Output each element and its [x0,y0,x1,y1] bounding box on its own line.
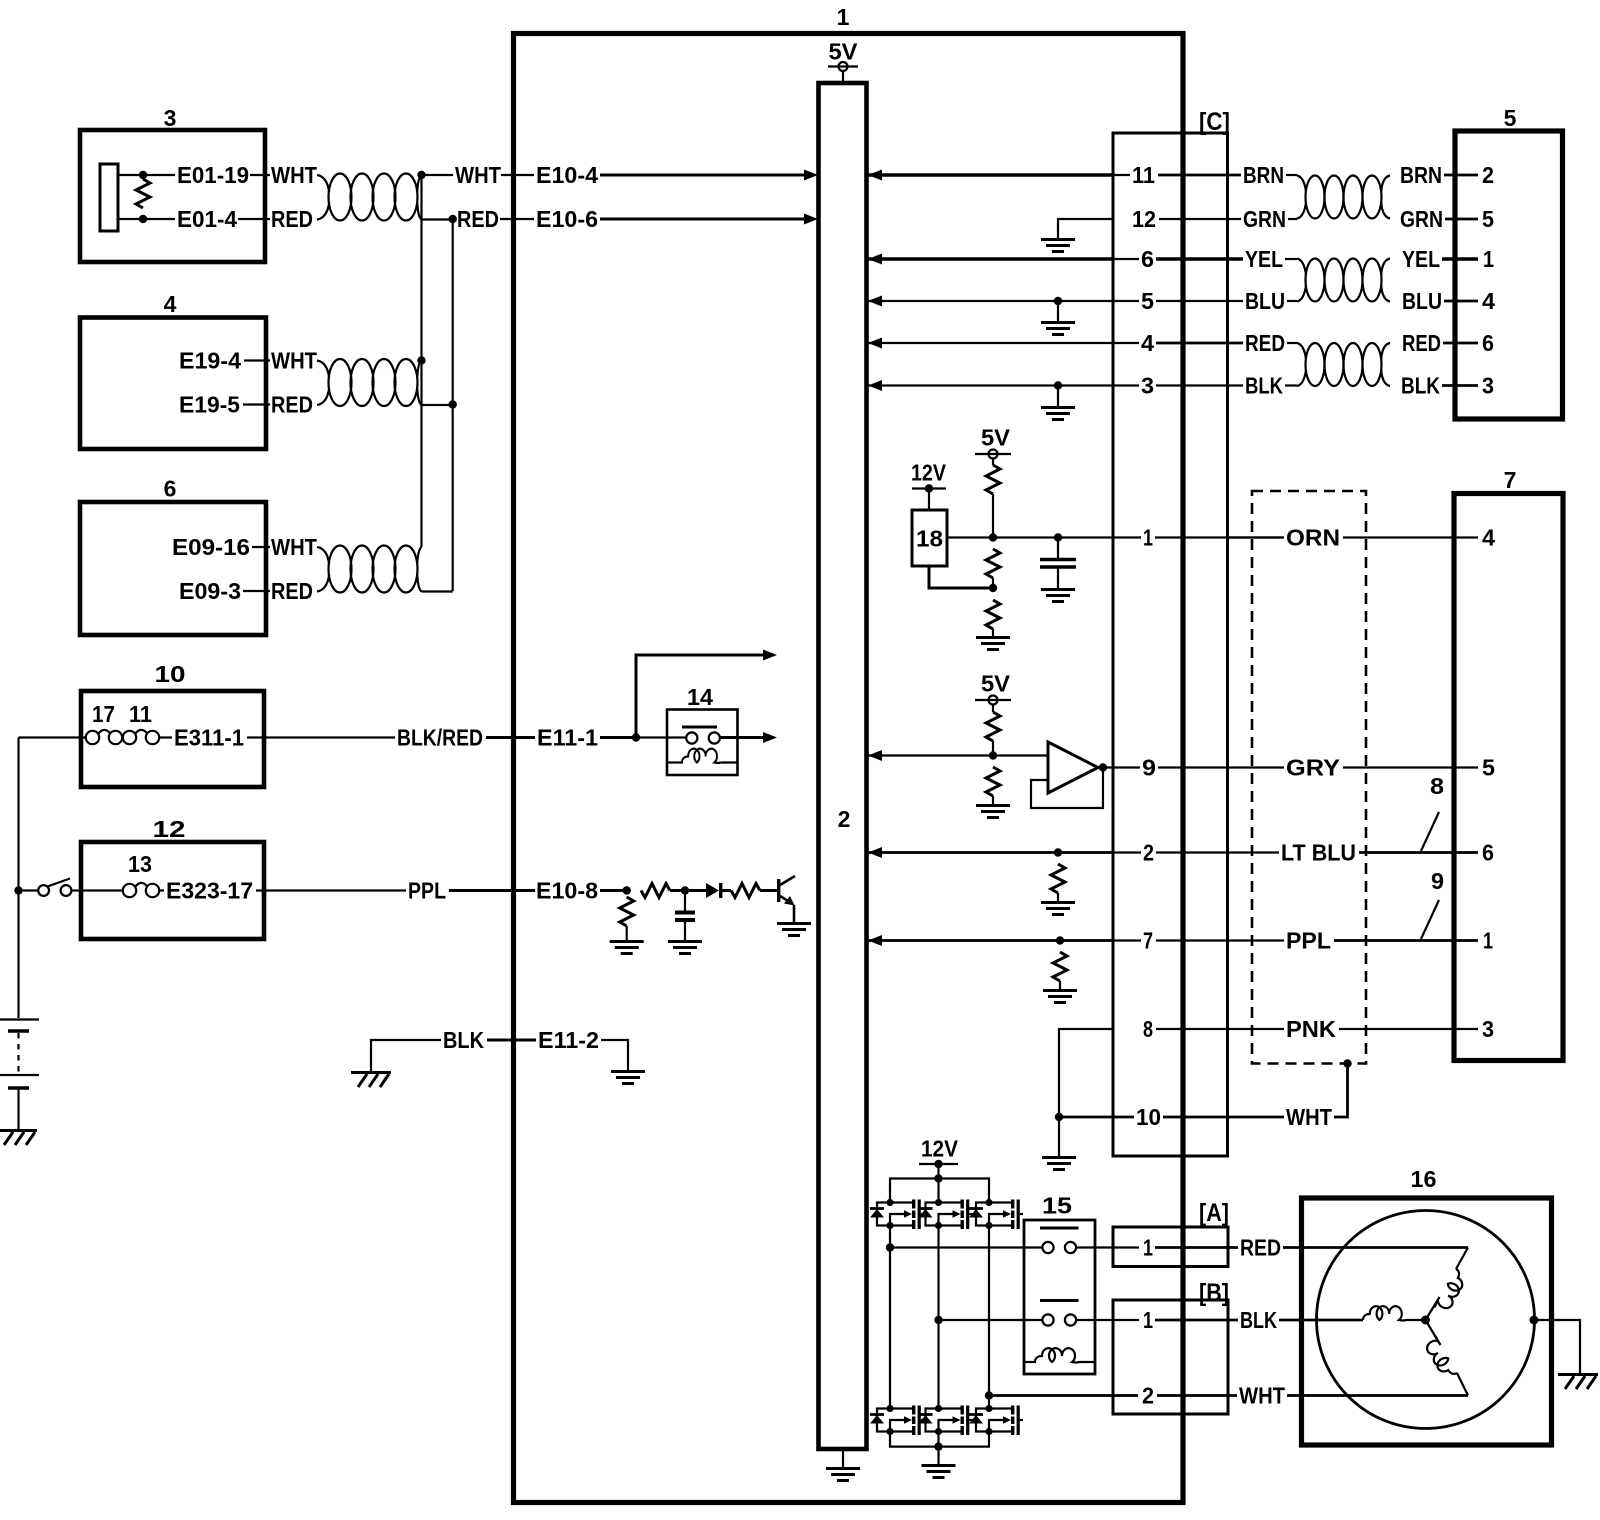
svg-text:YEL: YEL [1402,246,1440,272]
pin 7 stub [1113,939,1141,941]
wire ORN to pin 4 [1343,536,1478,538]
wire BLK/RED into box 1 [486,736,535,739]
svg-text:1: 1 [1143,525,1153,551]
svg-text:E01-19: E01-19 [177,162,249,188]
5V terminal (comparator) [975,696,1011,713]
wire E323-17 to PPL [256,889,406,891]
wire pin 12 jog to ground [1058,219,1113,238]
battery lower plates [0,1075,39,1088]
wire resistor to transistor base [760,889,777,892]
wire BRN to pin 2 [1444,174,1478,177]
svg-text:11: 11 [129,701,152,727]
svg-text:[C]: [C] [1199,108,1230,136]
sensor element (box 3) [100,164,118,231]
wire RED entry [1287,342,1297,344]
svg-text:2: 2 [838,806,851,832]
wire E01-19 stub [143,174,175,176]
splice slash 8 [1421,812,1439,851]
battery cell dashes [17,1033,19,1072]
node cap tap [1054,533,1062,541]
svg-text:GRY: GRY [1286,755,1340,781]
node source rail [934,1442,942,1450]
wire coil to RED bus [422,218,453,220]
winding phase C diagonal [1457,1373,1468,1396]
wire phase A vertical [889,1226,891,1407]
wire pin 7 to box 2 [868,939,1113,942]
wire bus down from box10 row [17,738,19,1019]
arrow into box 2 (pin 11) [868,170,882,181]
svg-text:WHT: WHT [271,534,317,560]
wire resistor to node [992,494,994,538]
winding phase B coil [1363,1306,1406,1320]
wire to ground [992,796,994,804]
connector box A [1113,1227,1228,1267]
wire contact to arrow [720,736,764,739]
svg-text:E19-4: E19-4 [179,348,241,374]
resistor (comparator pull-up) [986,712,1000,741]
pin 3 stub [1113,384,1139,386]
svg-text:4: 4 [164,291,177,317]
ground (pin 1 filter cap) [1041,590,1075,602]
pin 5 stub [1113,300,1139,302]
node divider mid [989,533,997,541]
relay 14 coil [682,749,721,763]
svg-text:RED: RED [1240,1235,1281,1261]
svg-text:4: 4 [1482,525,1495,551]
wire into box 10 [19,736,87,738]
svg-text:E19-5: E19-5 [179,392,240,418]
relay 14 contact bar [682,726,717,729]
wire BLK to pin 3 [1442,384,1478,387]
svg-text:16: 16 [1411,1166,1437,1192]
wire WHT bus vertical [420,175,422,547]
wire E10-6 to box 2 [600,218,806,221]
svg-text:BLU: BLU [1402,288,1442,314]
wire pin B1 to BLK [1155,1319,1238,1322]
arrow into box 2 (pin 5) [868,296,882,307]
wire branch up [636,655,764,738]
winding phase A coil [1434,1269,1468,1314]
svg-text:7: 7 [1504,467,1517,493]
wire node to cap node [993,536,1058,538]
chassis ground (motor case) [1558,1375,1598,1390]
wire pin 4 to box 2 [868,342,1113,344]
wire coil bottom to RED bus end [422,590,453,592]
wire E09-16 [252,546,270,548]
12V terminal [912,484,946,510]
svg-text:1: 1 [1143,1235,1153,1261]
resistor (series, E10-8) [641,884,670,898]
svg-text:12V: 12V [911,460,947,486]
svg-text:5V: 5V [981,671,1011,697]
wire 18 to node [947,536,993,538]
svg-text:3: 3 [164,105,177,131]
svg-text:YEL: YEL [1245,246,1283,272]
node phase B tap [934,1316,942,1324]
chassis ground (BLK lead) [351,1073,391,1088]
svg-text:9: 9 [1142,755,1156,781]
svg-text:ORN: ORN [1286,525,1340,551]
wire rail to ground [937,1447,939,1464]
node filter [681,886,689,894]
svg-text:5: 5 [1141,288,1154,314]
wire BLU entry [1287,300,1297,302]
wire fuse to E323-17 [159,889,164,891]
wire pin 10 to WHT [1163,1116,1284,1119]
wire E01-4 to RED [238,218,270,220]
svg-text:BLK: BLK [1240,1307,1277,1333]
svg-text:[B]: [B] [1199,1279,1229,1307]
wire LT BLU to pin 6 [1359,851,1478,854]
twisted pair BRN/GRN [1297,176,1390,219]
arrow into box 2 (pin 7) [868,935,882,946]
wire phase B to relay [939,1319,1043,1321]
wire pin B2 to WHT [1157,1394,1237,1397]
node E10-8 input [623,886,631,894]
wire BLK into box 1 [487,1039,536,1042]
svg-text:6: 6 [1141,246,1154,272]
arrow into box 2 (pin 2) [868,847,882,858]
svg-text:E311-1: E311-1 [174,725,244,751]
wire pin 3 to box 2 [868,384,1113,386]
svg-text:BLK/RED: BLK/RED [397,725,483,751]
svg-text:PPL: PPL [1286,928,1331,954]
wire contact A to box A [1076,1246,1139,1248]
ground (divider) [976,638,1010,650]
wire E19-5 [243,403,270,405]
svg-text:PNK: PNK [1286,1016,1336,1042]
relay 15 coil [1035,1348,1079,1362]
wire PPL to pin 1 [1334,939,1478,942]
wire to diode [685,889,706,892]
node motor case bond [1530,1316,1539,1325]
svg-text:E09-16: E09-16 [172,534,250,560]
winding phase B to center [1406,1319,1426,1321]
svg-text:E11-1: E11-1 [537,725,598,751]
transistor Q (NPN) [777,876,795,922]
svg-text:4: 4 [1141,330,1154,356]
ground (pin 5) [1041,323,1075,335]
svg-text:3: 3 [1482,1016,1494,1042]
5V terminal (divider) [975,450,1011,466]
resistor (comparator lower) [986,767,1000,796]
wire pin 5 to box 2 [868,300,1113,302]
node RED bus mid [449,400,457,408]
node pin 2 tap [1054,848,1062,856]
wire mid drain lead [937,1179,939,1201]
winding phase A to center [1426,1297,1440,1320]
node divider low [989,584,997,592]
node 12V rail [934,1174,942,1182]
pin 6 stub [1113,258,1139,260]
pin 2 stub [1113,851,1141,853]
svg-text:6: 6 [164,476,177,502]
module box 2 [819,83,867,1449]
node (143,219) [139,215,147,223]
svg-text:10: 10 [155,661,186,687]
svg-text:1: 1 [837,4,850,30]
node pin 10 [1055,1113,1063,1121]
ground below box 2 [842,1449,844,1467]
resistor (base, E10-8) [731,884,760,898]
svg-text:9: 9 [1431,868,1444,894]
svg-text:E01-4: E01-4 [177,206,237,232]
wire node to contact [636,736,686,738]
chassis ground (battery) [0,1131,37,1146]
wire pin 8 jog [1059,1029,1113,1117]
svg-text:6: 6 [1482,330,1494,356]
node E11-1 branch [632,733,640,741]
arrow into box 2 (E10-6) [804,214,818,225]
wire pin 3 to BLK [1156,384,1243,386]
motor circle [1317,1211,1535,1429]
svg-text:WHT: WHT [1286,1104,1332,1130]
relay box 15 [1024,1220,1095,1374]
pin 11 stub [1113,174,1130,176]
relay 15 contact B bar [1040,1299,1079,1302]
svg-text:E323-17: E323-17 [166,878,253,904]
svg-text:12V: 12V [921,1136,959,1162]
op-amp U (comparator) [1048,742,1098,793]
relay 14 coil baseline left [667,761,683,763]
wire WHT into motor [1287,1394,1468,1397]
wire pin 11 to BRN [1158,174,1241,177]
wire 18 bottom to low node [929,566,993,588]
wire pin 6 to YEL [1156,257,1243,260]
shield dashed box [1252,491,1366,1064]
wire to ground [1057,893,1059,901]
wire WHT into box 1 [501,174,534,176]
wire E311-1 to BLK/RED [247,736,395,738]
wire RED into motor [1283,1246,1468,1249]
svg-text:WHT: WHT [1239,1383,1285,1409]
svg-text:E11-2: E11-2 [538,1027,599,1053]
node pin 3 ground tap [1054,381,1062,389]
sensor box 3 [80,130,265,262]
svg-text:LT BLU: LT BLU [1281,840,1356,866]
wire BRN entry [1286,174,1297,176]
node phase A tap [886,1243,894,1251]
wire E11-2 to ground [601,1040,628,1070]
wire YEL to pin 1 [1442,257,1478,260]
connector box C [1113,133,1228,1156]
wire to lower node [992,578,994,588]
wire phase B vertical [937,1226,939,1407]
wire 12V rail [890,1179,989,1201]
arrow relay row to box 2 [763,732,777,743]
svg-text:WHT: WHT [455,162,501,188]
svg-text:12: 12 [1132,206,1156,232]
svg-text:10: 10 [1136,1104,1161,1130]
wire GRN to pin 5 [1445,218,1478,221]
svg-text:BLK: BLK [1245,373,1283,399]
svg-text:8: 8 [1143,1016,1153,1042]
wire sensor bottom [118,218,143,220]
feedback wire [1031,768,1103,809]
svg-text:7: 7 [1143,928,1153,954]
svg-text:4: 4 [1482,288,1495,314]
relay 15 coil leads [1024,1361,1036,1363]
wire BLK from chassis ground [371,1040,441,1071]
wire sensor top [118,174,143,176]
twisted pair RED/BLK [1297,343,1390,386]
wire RED bus vertical [452,219,454,591]
wire pin 10 [1059,1116,1134,1119]
resistor (divider mid) [986,549,1000,578]
ECU box 1 [514,34,1184,1503]
twisted pair (box 4) [317,359,422,406]
wire C to ORN [1227,536,1284,538]
wire to node [992,741,994,756]
svg-text:18: 18 [916,526,943,552]
wire E11-1 to node [600,736,636,739]
connector box 7 [1454,494,1563,1061]
node motor star point [1421,1316,1430,1325]
wire pin 12 to GRN [1159,218,1241,220]
wire case to chassis ground [1534,1320,1580,1373]
wire pin 2 to LT BLU [1156,851,1279,853]
svg-text:RED: RED [271,206,313,232]
wire battery to ground [17,1088,19,1130]
svg-text:BRN: BRN [1400,162,1442,188]
node op-amp output [1099,763,1107,771]
node pin 7 tap [1056,936,1064,944]
transistor Q3 (high side C) [969,1199,1023,1229]
winding phase C coil [1422,1335,1457,1380]
wire GRN entry [1288,218,1297,220]
svg-text:5V: 5V [981,425,1011,451]
node switch feed [14,886,22,894]
fuse 17 [86,730,122,744]
wire contact B to box B [1076,1319,1139,1321]
5V terminal (top of box 2) [828,62,858,83]
wire node 10 to ground [1058,1117,1060,1156]
svg-text:6: 6 [1482,840,1494,866]
svg-text:2: 2 [1142,1383,1154,1409]
winding phase C to center [1426,1320,1441,1345]
wire to ground [992,629,994,636]
wire shunt resistor to ground [626,926,628,940]
relay 15 contact A bar [1040,1227,1079,1230]
svg-text:14: 14 [687,684,713,710]
transistor Q2 (high side B) [919,1199,973,1229]
wire pin 2 to box 2 [868,851,1113,854]
svg-text:E10-6: E10-6 [536,206,598,232]
arrow into box 2 (pin 4) [868,338,882,349]
wire node to op-amp [993,754,1048,756]
battery positive plate [0,1020,39,1032]
wire phase A to relay [890,1246,1042,1248]
wire E19-4 [244,359,270,361]
svg-text:RED: RED [1245,330,1285,356]
wire PPL into box 1 [449,889,535,892]
svg-text:GRN: GRN [1243,206,1286,232]
wire pin 11 to box 2 [868,173,1113,176]
svg-text:2: 2 [1482,162,1494,188]
svg-text:BLK: BLK [443,1027,484,1053]
relay 15 contact A [1042,1242,1076,1253]
winding phase A diagonal [1456,1248,1468,1270]
sensor box 4 [80,318,266,450]
svg-text:3: 3 [1141,373,1154,399]
ground (pin 2) [1041,903,1075,915]
wire BLK entry [1285,384,1297,386]
svg-text:17: 17 [92,701,115,727]
relay 14 coil baseline right [721,761,738,763]
wire to ground [1059,981,1061,989]
resistor (pin 2 pulldown) [1051,864,1065,893]
wire to node 2 [670,889,685,892]
wire E01-19 to WHT [250,174,270,176]
arrow into box 2 (E10-4) [804,170,818,181]
wire pin 3 tap down [1057,386,1059,407]
svg-text:15: 15 [1042,1193,1072,1219]
ground (E11-2) [611,1072,645,1084]
svg-text:RED: RED [457,206,499,232]
motor box 16 [1302,1198,1552,1445]
component box 18 [912,510,947,566]
node (143,175) [139,171,147,179]
wire fuse to E311-1 [159,736,172,738]
arrow branch to box 2 [763,650,777,661]
twisted pair YEL/BLU [1297,259,1390,302]
switch (ignition) [38,879,71,896]
svg-text:RED: RED [271,578,313,604]
wire RED into box 1 [500,218,534,220]
svg-text:3: 3 [1482,373,1494,399]
svg-text:GRN: GRN [1400,206,1443,232]
wire inside box 12 [86,889,123,891]
wire E09-3 [243,590,270,592]
svg-text:13: 13 [128,851,152,877]
wire to WHT label 2 [422,174,454,176]
twisted pair (box 6) [317,546,422,593]
wire phase C vertical [988,1226,990,1407]
wire pin 9 to GRY [1158,766,1284,768]
sensor box 6 [80,502,266,635]
wire source rail [890,1432,989,1447]
wire E10-8 to node [600,889,627,892]
fuse 13 [123,883,159,897]
wire pin 5 to BLU [1156,300,1243,302]
wire YEL entry [1285,258,1297,260]
wire pin 4 to RED [1156,342,1243,345]
ground (pin 10) [1042,1158,1076,1170]
arrow into box 2 (comparator) [868,750,882,761]
ground (pin 3) [1041,408,1075,420]
12V terminal (bridge) [919,1160,958,1179]
resistor (shunt at E10-8 node) [620,897,634,926]
svg-text:E09-3: E09-3 [179,578,241,604]
wire switch to box 12 [71,889,86,891]
svg-text:1: 1 [1143,1307,1153,1333]
svg-text:BRN: BRN [1243,162,1284,188]
svg-text:E10-8: E10-8 [536,878,598,904]
ground (comparator divider) [976,806,1010,818]
ground (shunt resistor) [610,942,644,954]
svg-text:BLK: BLK [1401,373,1440,399]
svg-text:RED: RED [271,392,313,418]
capacitor (pin 1 filter) [1040,538,1076,589]
node comparator input [989,751,997,759]
transistor Q6 (low side C) [969,1405,1023,1435]
wire pin 6 to box 2 [868,257,1113,260]
wire pin A1 to RED [1155,1246,1238,1249]
svg-text:5: 5 [1482,755,1495,781]
wire coil to RED bus (box4) [422,404,453,406]
ground (pin 7) [1043,991,1077,1003]
wire node to box 2 [868,754,993,756]
